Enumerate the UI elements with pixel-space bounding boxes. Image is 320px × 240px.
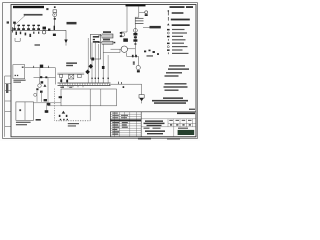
drop from suction pipe (46, 103, 48, 113)
valve on header 2 (45, 76, 47, 78)
small label near bracket (35, 44, 41, 45)
discharge wire (128, 48, 136, 50)
valve on chain (133, 33, 137, 35)
drop wire from dosing line to pump (39, 68, 41, 78)
left subcluster dots (120, 32, 122, 34)
transfer pump circle (38, 84, 42, 88)
inner drawing frame (11, 5, 196, 137)
dosing unit box (13, 65, 25, 79)
drop to damper (137, 56, 139, 65)
valve right of pump (43, 84, 46, 87)
dots on risers (91, 78, 92, 79)
gauge on chain (134, 29, 138, 33)
cabinet mark row 1 (93, 36, 99, 38)
lit cells (141, 119, 196, 137)
riser x103 (102, 53, 104, 84)
cabinet mark row 2 (93, 39, 95, 40)
hanging box 2 with X (69, 74, 74, 79)
flow arrow down (64, 40, 67, 44)
tick valve on discharge 1 (132, 55, 134, 58)
gauge PI2 (145, 11, 148, 14)
sheet background (0, 0, 200, 141)
valve above pump (41, 81, 44, 83)
block boundary vertical (89, 89, 91, 121)
stamp left cell text (112, 122, 119, 123)
sub-label with leader (24, 14, 43, 16)
dark block (123, 38, 128, 41)
skid frame rect (61, 89, 117, 106)
blob below gauge (53, 34, 56, 36)
left margin cell column (5, 76, 11, 137)
title block (110, 112, 196, 137)
suction L wire (103, 44, 120, 52)
valve tick d2 (121, 82, 123, 84)
notes block 1 (169, 65, 185, 66)
heater label 1 (103, 31, 111, 33)
riser x48 (47, 78, 49, 106)
name cell text (145, 120, 163, 122)
drop from hanging box 2 (66, 79, 68, 83)
wire L to gauge (139, 6, 145, 12)
left margin tick mark (7, 21, 9, 23)
heater label 2 (103, 39, 110, 41)
connect to skid (48, 105, 61, 107)
suction header line (34, 77, 56, 79)
gauge lower marks (54, 18, 56, 20)
marks under cluster (40, 91, 43, 93)
stamp upper row text marks (112, 113, 118, 114)
valve V7 with sampler circle (42, 27, 46, 34)
pressure gauge PI1 (53, 10, 57, 17)
valve tick d1 (118, 82, 120, 85)
format text (167, 138, 180, 139)
drain line to funnel (109, 84, 141, 85)
connector to heater 1 (98, 35, 102, 37)
small gauge (34, 93, 37, 96)
check valve on chain (134, 36, 137, 38)
stamp header band (110, 119, 141, 121)
damper circle (136, 66, 140, 70)
tick on chain (134, 43, 136, 44)
label above double line (66, 62, 77, 64)
drain group triangle (62, 111, 66, 114)
dark valve on dosing line (40, 65, 43, 68)
distribution cabinet (91, 34, 101, 59)
outer border (3, 3, 198, 139)
valve on header 1 (40, 76, 42, 78)
valve V2 (17, 25, 20, 31)
notes block 2 (165, 83, 187, 84)
kopiroval text (138, 138, 151, 140)
instrument double line (57, 72, 84, 74)
label near drop (67, 22, 77, 25)
line A corner drop (65, 30, 67, 39)
manifold collector (58, 83, 111, 87)
main pipe line A (12, 29, 67, 31)
valve on chain 2 (133, 39, 137, 41)
tank label (16, 122, 31, 123)
wire down to coil (138, 13, 140, 18)
dosing riser (54, 68, 56, 85)
tick on dosing line (33, 66, 35, 68)
valve below damper (137, 70, 140, 72)
motor circle (121, 33, 125, 37)
dashed boundary left edge (53, 89, 55, 121)
sampling marks below line A (16, 32, 18, 35)
valve on riser x48 a (44, 99, 47, 101)
title tail mark (46, 8, 48, 10)
valve blob on riser x92 (91, 58, 94, 61)
tank divider (24, 102, 26, 120)
stamp divider main (140, 112, 142, 137)
drain group tick R (66, 115, 68, 117)
dosing unit dots (15, 75, 16, 76)
dosing line (25, 67, 56, 69)
valve V1 tall (13, 22, 16, 31)
stub ticks below manifold (63, 86, 83, 88)
tick valve on discharge 2 (135, 55, 137, 58)
cabinet mark row 3 (93, 41, 100, 43)
riser x95 (94, 43, 96, 84)
pump P1 (121, 46, 127, 52)
riser x92 (91, 43, 93, 84)
valve on drop (45, 110, 49, 113)
riser x108 (107, 55, 109, 83)
wire from title drop (126, 6, 128, 32)
stamp outline (110, 112, 196, 137)
block boundary dotted bottom (56, 120, 90, 122)
drain group label (68, 123, 79, 124)
stamp left columns (115, 112, 137, 137)
valve V4 (27, 25, 30, 31)
pair marks left of damper (133, 62, 135, 63)
title text top-left (13, 6, 44, 8)
funnel drop wire (141, 84, 143, 94)
suction risers to tank (36, 91, 38, 102)
dosing unit tick (22, 67, 24, 68)
legend rows (167, 10, 190, 54)
legend header (170, 6, 185, 8)
labels under band (60, 87, 64, 88)
striped box 2 (102, 41, 113, 44)
designation text above stamp (163, 97, 183, 99)
safety valve diamond 2 (85, 70, 90, 75)
reagent tank (16, 102, 34, 120)
discharge line (127, 55, 139, 57)
valve under PI2 (145, 14, 148, 16)
skid internal divider (100, 89, 102, 106)
lit cell marks (169, 120, 173, 121)
pump to discharge connector (126, 52, 128, 56)
left margin rotated text smudge (6, 84, 8, 93)
title text top-right (126, 4, 146, 6)
valve V6 (37, 25, 40, 31)
riser x88 (87, 38, 89, 83)
logo (178, 130, 195, 135)
valve V8 (48, 29, 50, 31)
chain to discharge connector (134, 49, 136, 57)
tank mark (19, 109, 21, 111)
vertical chain pipe (134, 25, 136, 49)
gauge stem (53, 17, 55, 31)
tick right of heater 2 (114, 42, 116, 44)
drain group tick L (59, 115, 61, 117)
tie below pump (36, 88, 38, 90)
tiny mark above stamp right (189, 109, 195, 110)
dot below drain line (123, 86, 125, 88)
flange at line A left end (11, 27, 13, 32)
logo small text (178, 128, 188, 129)
connector to heater 2 (98, 42, 102, 44)
tick on dosing line 2 (48, 66, 50, 68)
hanging box 1 (60, 74, 63, 77)
tank top suction pipe (34, 102, 62, 104)
gauge center dot (54, 14, 55, 15)
valve on riser x103 (102, 66, 105, 69)
mark on skid left edge (59, 96, 62, 98)
stamp left rows (110, 114, 196, 135)
gauge top tick (54, 6, 56, 8)
suction wire (111, 48, 122, 50)
valve V3 (22, 25, 25, 31)
drain funnel (139, 95, 144, 104)
drain group dots (60, 119, 61, 120)
riser x98 (97, 44, 99, 83)
sheet count text (144, 128, 150, 129)
safety valve diamond 1 (89, 64, 94, 69)
mark near tank bottom (36, 119, 41, 121)
striped box 1 (102, 34, 113, 38)
valve V5 (32, 25, 35, 31)
cooling coil (135, 17, 143, 25)
bracket under line A (15, 38, 20, 41)
leader line (15, 16, 25, 25)
outlet label with arrow (143, 26, 150, 28)
org name text (145, 130, 165, 132)
dosing unit label (13, 80, 25, 81)
wire to motor cluster (121, 31, 127, 33)
drop from hanging box 1 (60, 78, 62, 84)
valve on riser x48 b (47, 103, 50, 105)
sensor cluster left of legend (144, 51, 146, 53)
hanging box 3 (78, 74, 82, 77)
designation cell text (177, 112, 195, 114)
